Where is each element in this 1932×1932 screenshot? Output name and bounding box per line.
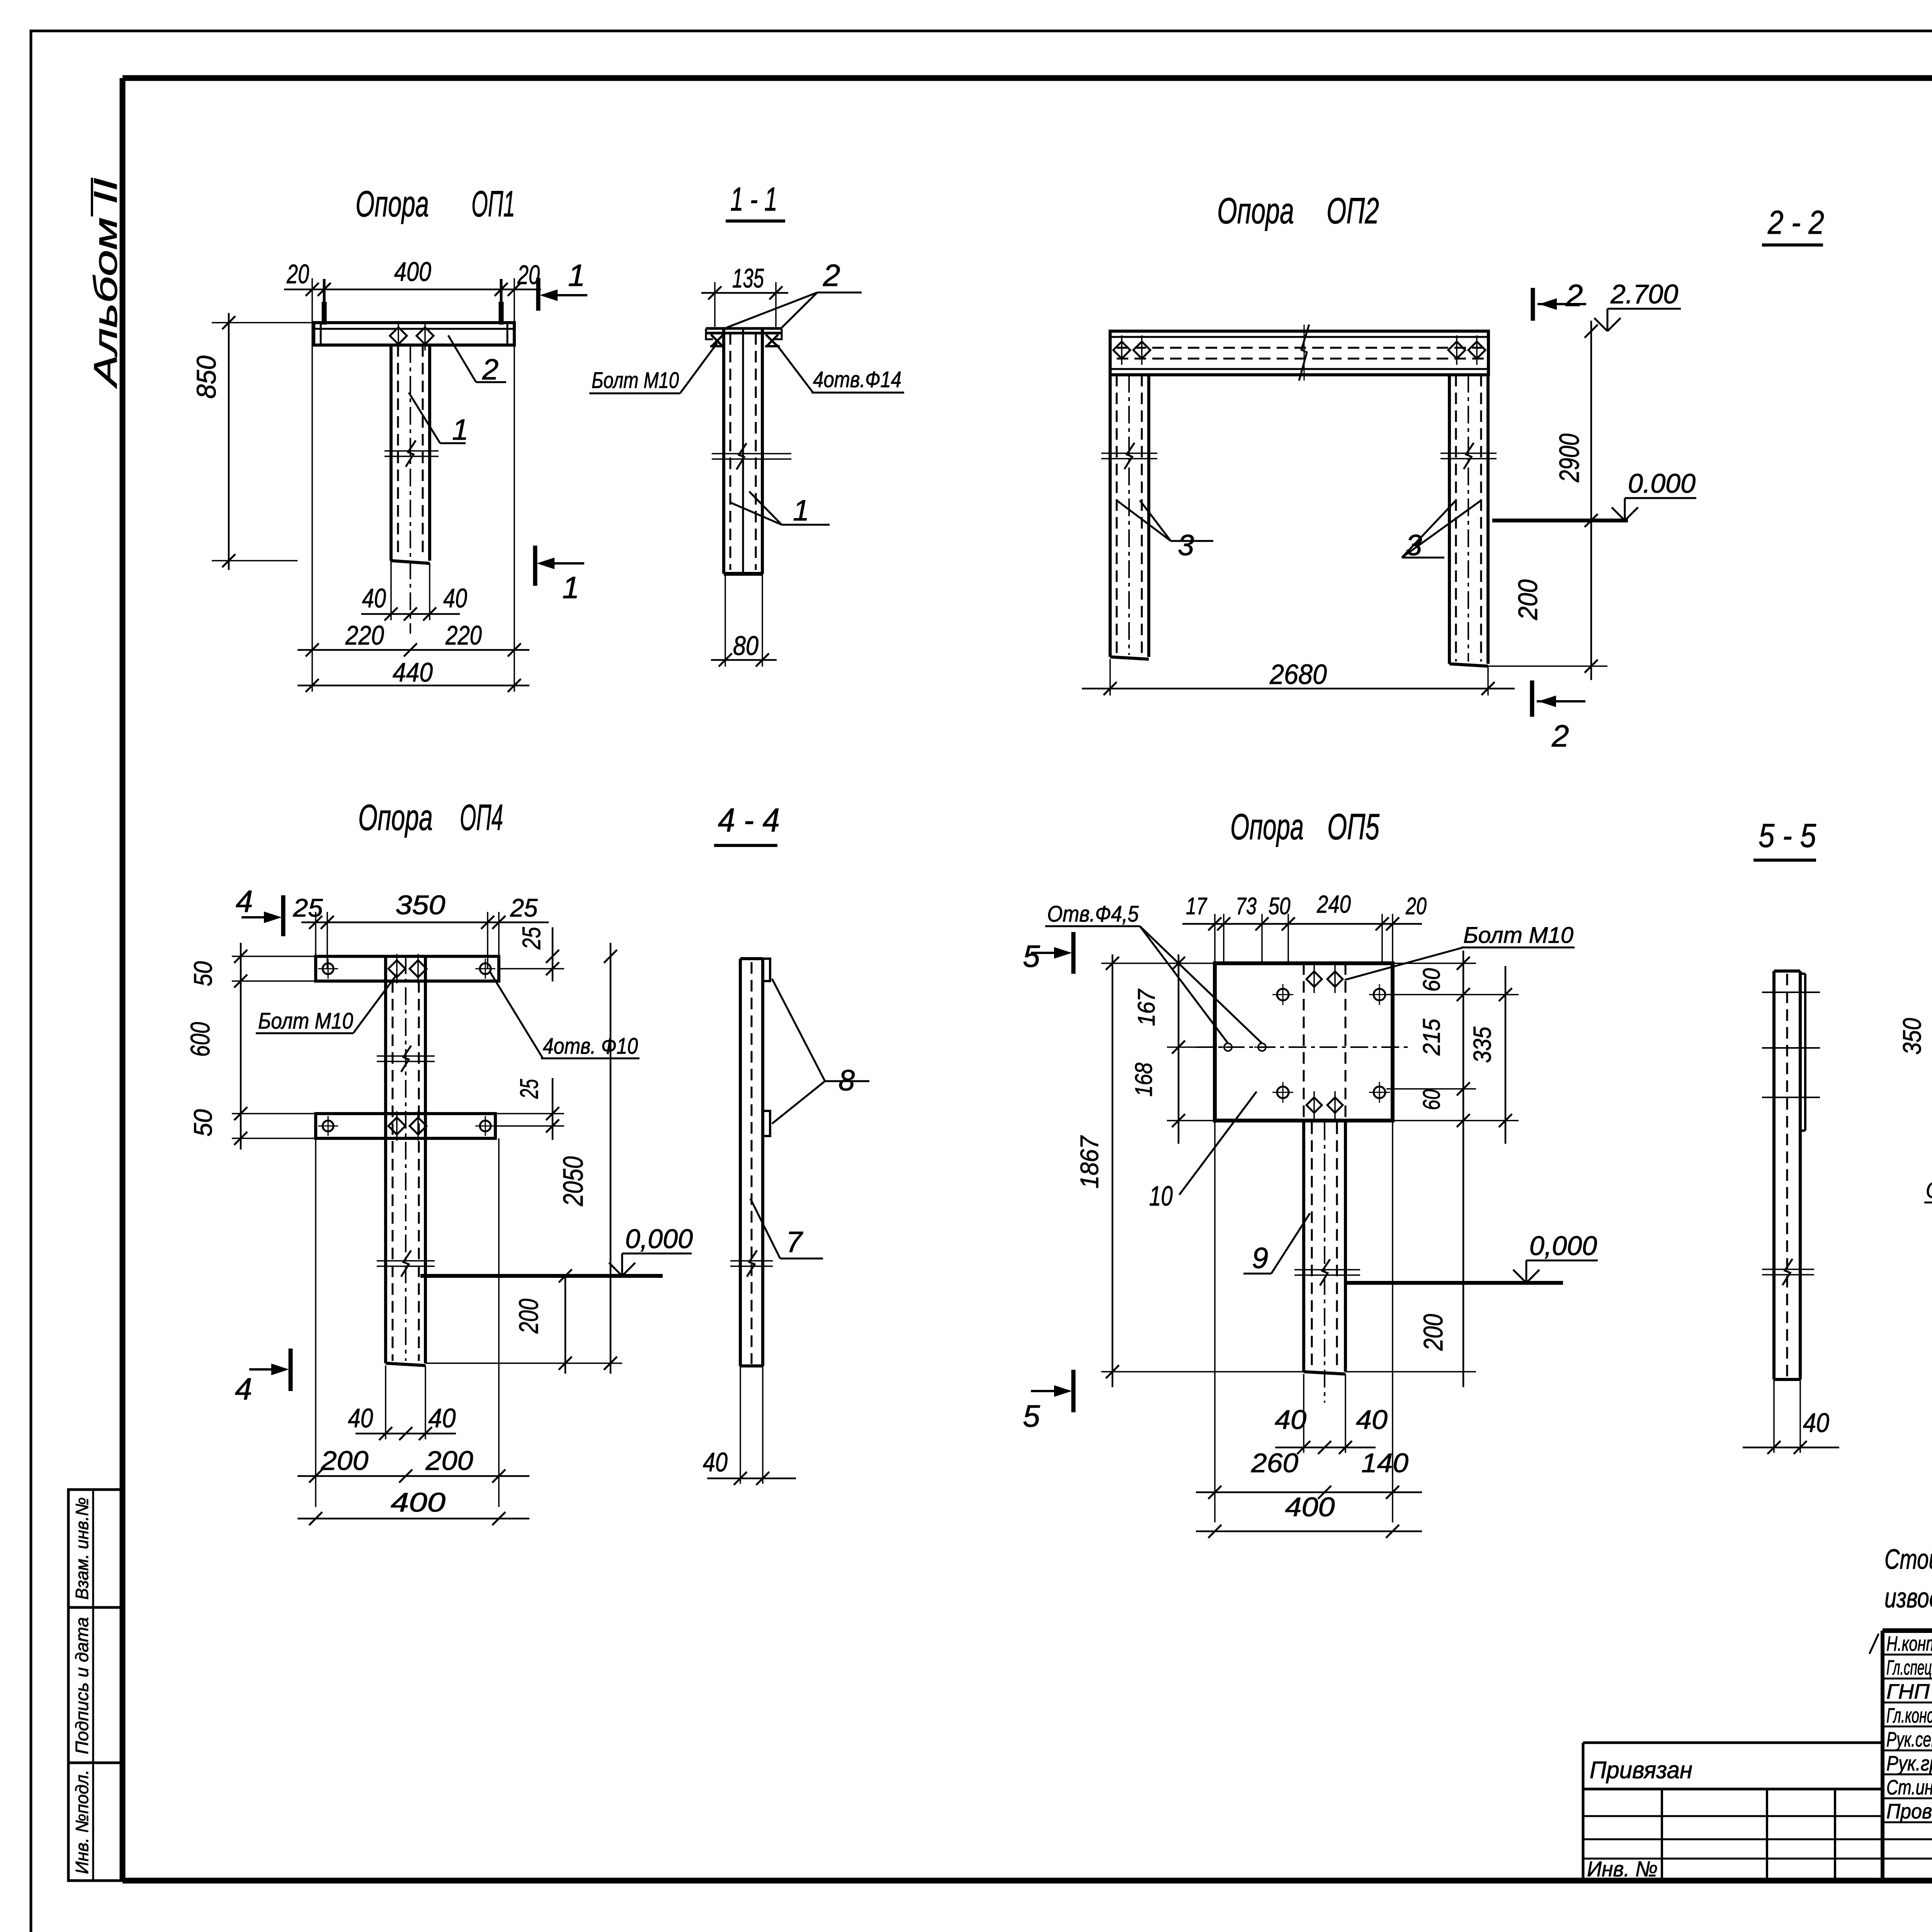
svg-text:2: 2 bbox=[823, 258, 840, 293]
svg-text:140: 140 bbox=[1361, 1448, 1408, 1478]
svg-text:50: 50 bbox=[189, 1109, 217, 1136]
OP1 extension lines bbox=[311, 278, 313, 692]
4-4 top tab (pos.8) bbox=[763, 959, 770, 981]
OP5 section mark 5 bottom bbox=[1071, 1370, 1076, 1412]
svg-text:440: 440 bbox=[393, 657, 433, 687]
svg-text:215: 215 bbox=[1418, 1019, 1445, 1056]
svg-text:167: 167 bbox=[1133, 988, 1160, 1026]
OP4 dim 200 bbox=[565, 1276, 566, 1374]
OP2 left column break bbox=[1101, 452, 1157, 454]
svg-text:Болт М10: Болт М10 bbox=[1463, 923, 1573, 948]
svg-text:2: 2 bbox=[1565, 278, 1583, 313]
svg-text:4: 4 bbox=[235, 1372, 252, 1406]
svg-text:5 - 5: 5 - 5 bbox=[1759, 817, 1816, 854]
OP1 dim 850 bbox=[212, 322, 314, 323]
svg-text:60: 60 bbox=[1418, 968, 1445, 992]
svg-text:20: 20 bbox=[286, 259, 309, 289]
svg-text:Рук.гр.: Рук.гр. bbox=[1886, 1752, 1932, 1775]
svg-text:50: 50 bbox=[1269, 893, 1291, 920]
OP5 holes F9 bbox=[1277, 989, 1289, 1000]
svg-text:Опора: Опора bbox=[355, 184, 429, 224]
svg-text:350: 350 bbox=[1898, 1018, 1926, 1054]
1-1 top flange (pos.2) bbox=[706, 327, 782, 330]
OP2 beam break bbox=[1299, 325, 1309, 381]
svg-text:168: 168 bbox=[1131, 1063, 1157, 1097]
OP4 level 0.000 bbox=[420, 1274, 663, 1278]
svg-text:2900: 2900 bbox=[1554, 434, 1585, 483]
svg-text:260: 260 bbox=[1251, 1448, 1298, 1478]
OP4 top bar holes bbox=[323, 963, 333, 974]
svg-text:ОП5: ОП5 bbox=[1327, 806, 1380, 847]
svg-text:Болт М10: Болт М10 bbox=[592, 368, 679, 393]
svg-text:40: 40 bbox=[362, 583, 386, 613]
OP5 column (pos.9) bbox=[1302, 1121, 1305, 1372]
svg-text:600: 600 bbox=[185, 1022, 215, 1057]
OP1 section mark 1 bottom bbox=[533, 546, 537, 586]
svg-text:2.700: 2.700 bbox=[1610, 279, 1678, 309]
svg-text:240: 240 bbox=[1316, 890, 1351, 918]
svg-text:17: 17 bbox=[1186, 893, 1207, 920]
OP4 top bar bolts bbox=[388, 960, 405, 977]
svg-text:0,000: 0,000 bbox=[1529, 1231, 1597, 1261]
svg-text:20: 20 bbox=[1405, 893, 1427, 920]
OP5 bolts M10 bbox=[1306, 971, 1322, 987]
svg-text:ОП4: ОП4 bbox=[460, 797, 503, 838]
svg-text:4отв.Ф14: 4отв.Ф14 bbox=[813, 367, 901, 392]
svg-text:60: 60 bbox=[1418, 1089, 1445, 1110]
inner frame bbox=[122, 75, 1932, 81]
svg-text:Отв.Ф4,5: Отв.Ф4,5 bbox=[1047, 901, 1139, 927]
svg-text:Рук.сект.: Рук.сект. bbox=[1886, 1728, 1932, 1751]
svg-text:Отв.ф5: Отв.ф5 bbox=[1926, 1178, 1932, 1203]
5-5 break bbox=[1762, 1269, 1814, 1270]
svg-text:3: 3 bbox=[1178, 529, 1194, 562]
OP1 weld studs on plate bbox=[322, 302, 327, 325]
1-1 column bbox=[722, 328, 725, 574]
svg-text:ГНП: ГНП bbox=[1886, 1680, 1930, 1703]
svg-text:40: 40 bbox=[443, 583, 467, 613]
OP2 beam bolts left bbox=[1113, 342, 1130, 359]
svg-text:40: 40 bbox=[1275, 1405, 1306, 1435]
svg-text:2: 2 bbox=[1551, 719, 1569, 753]
OP1 section mark 1 top bbox=[536, 278, 541, 311]
svg-text:1: 1 bbox=[562, 570, 580, 605]
OP5 plate (pos.10) bbox=[1215, 963, 1393, 1121]
svg-text:200: 200 bbox=[514, 1299, 544, 1334]
svg-text:7: 7 bbox=[786, 1226, 803, 1259]
svg-text:40: 40 bbox=[703, 1447, 728, 1477]
svg-text:4отв. Ф10: 4отв. Ф10 bbox=[543, 1034, 638, 1059]
OP2 vertical dim 2900/200 bbox=[1590, 321, 1592, 680]
OP2 top beam bbox=[1110, 331, 1488, 375]
OP2 section mark 2 bottom bbox=[1530, 680, 1534, 717]
svg-text:80: 80 bbox=[733, 631, 759, 661]
left margin box: Инв. № подл. bbox=[68, 1763, 122, 1881]
OP5 column break bbox=[1294, 1269, 1360, 1270]
OP4 section mark 4 top bbox=[281, 895, 286, 936]
5-5 plate bbox=[1772, 971, 1776, 1379]
svg-text:1: 1 bbox=[568, 258, 585, 293]
4-4 label 8 bbox=[772, 979, 825, 1081]
svg-text:200: 200 bbox=[320, 1446, 368, 1476]
svg-text:8: 8 bbox=[838, 1064, 855, 1097]
svg-text:50: 50 bbox=[189, 961, 217, 986]
svg-text:Болт М10: Болт М10 bbox=[258, 1009, 353, 1034]
4-4 plate bbox=[739, 959, 742, 1366]
svg-text:350: 350 bbox=[396, 890, 446, 920]
svg-text:3: 3 bbox=[1406, 529, 1422, 562]
svg-text:1 - 1: 1 - 1 bbox=[730, 181, 777, 218]
svg-text:1867: 1867 bbox=[1075, 1135, 1104, 1189]
OP2 left column bbox=[1109, 375, 1112, 657]
OP2 right column break bbox=[1440, 452, 1497, 454]
svg-text:Опора: Опора bbox=[1217, 190, 1294, 231]
OP5 plate centerline bbox=[1196, 1046, 1410, 1048]
svg-text:Взам. инв.№: Взам. инв.№ bbox=[72, 1497, 92, 1600]
svg-text:Ст.инж.: Ст.инж. bbox=[1886, 1776, 1932, 1799]
svg-text:5: 5 bbox=[1023, 939, 1040, 973]
OP5 small holes F4,5 bbox=[1224, 1043, 1232, 1051]
left margin box: Взам. инв. № bbox=[68, 1490, 122, 1607]
4-4 break bbox=[730, 1260, 773, 1262]
svg-text:Подпись и дата: Подпись и дата bbox=[72, 1617, 92, 1754]
svg-text:0.000: 0.000 bbox=[1628, 468, 1696, 498]
svg-text:400: 400 bbox=[394, 257, 431, 287]
svg-text:ОП2: ОП2 bbox=[1327, 190, 1379, 231]
svg-text:Гл.спец от.: Гл.спец от. bbox=[1886, 1656, 1932, 1679]
svg-text:Инв. №подл.: Инв. №подл. bbox=[72, 1770, 92, 1874]
svg-text:Инв. №: Инв. № bbox=[1587, 1857, 1658, 1881]
OP1 label 2 leader bbox=[448, 335, 476, 382]
svg-text:1: 1 bbox=[793, 494, 809, 527]
svg-text:2050: 2050 bbox=[558, 1156, 589, 1207]
svg-text:40: 40 bbox=[1356, 1405, 1388, 1435]
OP4 dim 2050 bbox=[610, 943, 612, 1374]
svg-text:10: 10 bbox=[1149, 1181, 1173, 1212]
svg-text:200: 200 bbox=[425, 1446, 473, 1476]
svg-text:25: 25 bbox=[515, 1079, 543, 1099]
svg-text:25: 25 bbox=[517, 927, 546, 950]
svg-text:Опора: Опора bbox=[1230, 806, 1304, 847]
5-5 hole center marks bbox=[1762, 992, 1820, 993]
left margin box: Подпись и дата bbox=[68, 1607, 122, 1763]
OP4 column breaks bbox=[377, 1055, 435, 1057]
OP2 right column bbox=[1448, 375, 1451, 664]
svg-text:9: 9 bbox=[1252, 1242, 1268, 1275]
svg-text:Н.контр.: Н.контр. bbox=[1886, 1632, 1932, 1655]
4-4 label 7 bbox=[750, 1199, 780, 1259]
title block outline bbox=[1883, 1628, 1932, 1633]
left attach table (Privyazan) bbox=[1583, 1742, 1883, 1744]
svg-text:5: 5 bbox=[1023, 1399, 1040, 1433]
OP5 level 0.000 bbox=[1345, 1281, 1563, 1285]
svg-text:Пров.: Пров. bbox=[1886, 1800, 1932, 1823]
svg-text:2: 2 bbox=[482, 353, 498, 386]
OP2 beam bolts right bbox=[1448, 342, 1465, 359]
svg-text:0,000: 0,000 bbox=[625, 1224, 693, 1254]
svg-text:4 - 4: 4 - 4 bbox=[718, 802, 780, 839]
1-1 break mark bbox=[712, 453, 791, 454]
svg-text:2680: 2680 bbox=[1269, 659, 1327, 690]
svg-text:400: 400 bbox=[391, 1487, 446, 1517]
OP2 label 3 right bbox=[1402, 500, 1456, 558]
OP1 bolts M10 on plate bbox=[390, 327, 407, 344]
OP1 break mark bbox=[384, 450, 439, 452]
1-1 bolts M10 bbox=[711, 335, 723, 347]
svg-text:220: 220 bbox=[445, 620, 482, 650]
svg-text:335: 335 bbox=[1468, 1027, 1496, 1063]
svg-text:4: 4 bbox=[236, 884, 253, 918]
svg-text:Стойку опоры ОП1приварить к за: Стойку опоры ОП1приварить к закладной де… bbox=[1884, 1544, 1932, 1575]
signature table rows bbox=[1883, 1654, 1932, 1656]
OP1 column (pos.1) bbox=[389, 345, 393, 561]
OP1 label 1 leader bbox=[409, 393, 440, 443]
svg-text:40: 40 bbox=[1803, 1408, 1829, 1438]
svg-text:25: 25 bbox=[510, 893, 538, 922]
svg-text:2 - 2: 2 - 2 bbox=[1767, 204, 1824, 241]
svg-text:220: 220 bbox=[345, 620, 384, 650]
svg-text:Гл.констр.: Гл.констр. bbox=[1886, 1704, 1932, 1727]
svg-text:200: 200 bbox=[1418, 1314, 1448, 1351]
svg-text:ОП1: ОП1 bbox=[471, 184, 515, 224]
OP2 label 3 left bbox=[1117, 500, 1171, 541]
svg-text:400: 400 bbox=[1285, 1492, 1335, 1522]
svg-text:25: 25 bbox=[293, 893, 323, 922]
svg-text:850: 850 bbox=[191, 355, 221, 399]
OP5 section mark 5 top bbox=[1071, 932, 1076, 974]
OP5 column dashed through plate bbox=[1303, 963, 1305, 1121]
4-4 lower tab (pos.8) bbox=[763, 1111, 770, 1136]
svg-text:изводить электродами Э42 ГОСТ: изводить электродами Э42 ГОСТ 9466-75 по… bbox=[1884, 1583, 1932, 1614]
svg-text:73: 73 bbox=[1236, 893, 1257, 920]
svg-text:40: 40 bbox=[348, 1403, 373, 1433]
OP4 top bar bbox=[316, 956, 499, 981]
svg-text:1: 1 bbox=[452, 413, 468, 446]
OP1 top plate (pos.2) bbox=[314, 323, 514, 345]
svg-text:Опора: Опора bbox=[358, 797, 433, 838]
OP2 section mark 2 top bbox=[1531, 288, 1535, 321]
5-5 right strip bbox=[1804, 974, 1806, 1131]
slash mark left of table bbox=[1869, 1634, 1879, 1654]
OP2 level 0.000 bbox=[1492, 519, 1628, 522]
OP4 column bbox=[384, 981, 387, 1363]
svg-text:200: 200 bbox=[1513, 579, 1543, 620]
svg-text:Привязан: Привязан bbox=[1590, 1757, 1692, 1784]
OP4 second bar bbox=[316, 1114, 495, 1138]
OP4 section mark 4 bottom bbox=[289, 1349, 293, 1391]
OP2 level 2.700 bbox=[1594, 318, 1607, 331]
svg-text:40: 40 bbox=[429, 1403, 456, 1433]
svg-text:135: 135 bbox=[732, 263, 764, 293]
